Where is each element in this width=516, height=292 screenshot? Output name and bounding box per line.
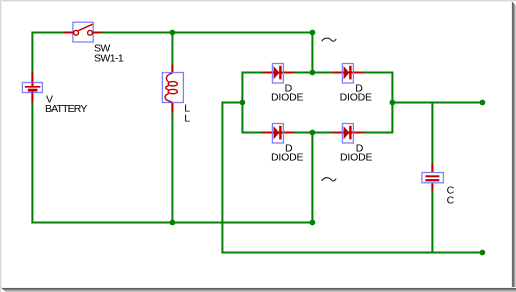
label D2 value DIODE: [340, 92, 372, 104]
diode D3 (bottom-left): [262, 124, 293, 144]
wire bridge bottom-middle drop: [311, 133, 313, 223]
diode D1 (top-left): [262, 64, 293, 84]
diode D2 (top-right): [332, 64, 363, 84]
label SW1-1: [94, 53, 124, 65]
wire bridge left tap horizontal: [222, 102, 242, 104]
label D2 ref: [355, 83, 363, 95]
wire left vertical: [31, 32, 33, 224]
label D4 ref: [356, 143, 364, 155]
wire top-right drop to bridge: [311, 33, 313, 73]
svg-text:DIODE: DIODE: [340, 152, 372, 164]
wire bridge top rail: [242, 72, 392, 74]
node output positive end: [480, 100, 486, 106]
wire bridge right vertical: [391, 72, 393, 134]
capacitor C: [422, 164, 444, 191]
svg-text:L: L: [184, 113, 190, 125]
label D1 ref: [285, 83, 293, 95]
junction node inductor bottom: [170, 220, 176, 226]
junction node bridge bottom middle: [310, 130, 316, 136]
junction node bottom wire right end: [310, 220, 316, 226]
label SW: [94, 43, 110, 55]
wire top horizontal net: [32, 32, 312, 34]
label D1 value DIODE: [271, 92, 303, 104]
AC marker tilde bottom: [322, 178, 336, 181]
svg-text:BATTERY: BATTERY: [45, 103, 87, 115]
junction node top-right corner: [310, 30, 316, 36]
junction node bridge left: [240, 100, 246, 106]
label C value: [447, 195, 455, 207]
wire bridge right output horizontal: [392, 102, 482, 104]
label V: [46, 94, 53, 106]
inductor L: [162, 65, 183, 113]
wire bridge left vertical: [241, 72, 243, 134]
label D3 ref: [285, 143, 293, 155]
label BATTERY: [45, 103, 87, 115]
AC marker tilde top: [322, 38, 336, 41]
label L: [184, 103, 190, 115]
battery V: [22, 73, 42, 103]
junction node bridge top middle: [310, 70, 316, 76]
svg-text:DIODE: DIODE: [340, 92, 372, 104]
node output negative end: [480, 250, 486, 256]
svg-text:SW1-1: SW1-1: [94, 53, 124, 65]
wire capacitor branch vertical: [431, 103, 433, 253]
wire left tap vertical: [221, 102, 223, 254]
wire inductor branch vertical: [171, 33, 173, 223]
diode D4 (bottom-right): [332, 124, 363, 144]
switch SW1-1: [63, 22, 101, 42]
label D4 value DIODE: [340, 152, 372, 164]
wire bottom horizontal (upper return): [31, 222, 312, 224]
wire bridge bottom rail: [242, 132, 392, 134]
junction node bridge right: [390, 100, 396, 106]
label D3 value DIODE: [271, 152, 303, 164]
junction node at inductor top: [170, 30, 176, 36]
wire lower return horizontal: [222, 252, 482, 254]
label L2: [184, 113, 190, 125]
svg-text:DIODE: DIODE: [271, 92, 303, 104]
svg-text:C: C: [447, 195, 455, 207]
svg-text:DIODE: DIODE: [271, 152, 303, 164]
label C ref: [447, 185, 455, 197]
